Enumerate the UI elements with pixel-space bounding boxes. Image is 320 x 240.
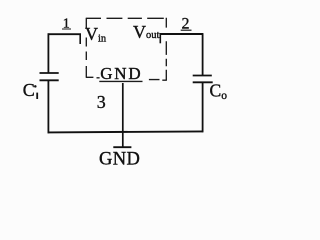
wire: left vertical below Ci <box>47 81 49 133</box>
svg-text:GND: GND <box>100 64 142 83</box>
svg-text:Vin: Vin <box>85 24 107 45</box>
wire: output top horizontal (pin 2) <box>160 33 204 35</box>
wire: bottom horizontal rail <box>48 131 204 132</box>
regulator U1 dashed outline <box>86 18 167 81</box>
pin number 2 (underlined) <box>181 16 192 33</box>
pin label GND (inside, underlined) <box>99 64 142 83</box>
wire: input top horizontal (pin 1) <box>48 33 81 35</box>
capacitor Co plates <box>193 76 213 83</box>
svg-text:C: C <box>23 80 35 100</box>
svg-text:Vout: Vout <box>133 22 160 42</box>
wire: left vertical above Ci <box>47 33 49 72</box>
wire: pin 2 stub down at box edge <box>159 34 161 43</box>
wire: middle vertical from GND pin 3 <box>122 83 124 147</box>
wire: right vertical below Co <box>202 83 204 132</box>
pin number 1 (underlined) <box>62 17 71 32</box>
svg-text:Co: Co <box>210 81 228 102</box>
wire: pin 1 stub down at box edge <box>79 34 81 44</box>
svg-text:GND: GND <box>99 149 140 169</box>
wire: right vertical above Co <box>202 33 204 75</box>
ground symbol bar <box>113 146 131 148</box>
svg-text:3: 3 <box>97 92 106 112</box>
capacitor Ci plates <box>40 73 59 80</box>
